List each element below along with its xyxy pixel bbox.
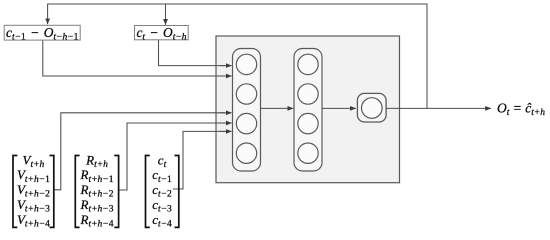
vector V: input vector [V_t+h ... V_t+h-4] xyxy=(13,152,54,229)
layer: hidden layer rounded rect xyxy=(294,49,322,172)
neuron: input 2 xyxy=(236,84,256,104)
vector R: input vector [R_t+h ... R_t+h-4] xyxy=(75,152,118,229)
box B1: c_t-1 minus O_t-h-1 xyxy=(4,25,80,43)
bracket right of R xyxy=(114,156,118,228)
wire: feedback loop from output line up and across the top xyxy=(48,4,427,108)
layer: input layer rounded rect xyxy=(233,49,261,172)
neuron: hidden 2 xyxy=(298,84,318,104)
neuron: input 3 xyxy=(236,113,256,133)
wire: vector c to network input 5 xyxy=(173,131,225,189)
neuron: hidden 4 xyxy=(298,143,318,163)
wire: box B1 output to network input 2 xyxy=(43,40,225,76)
neuron: hidden 3 xyxy=(298,113,318,133)
bracket left of V xyxy=(13,156,17,228)
svg-text:Vt+h: Vt+h xyxy=(23,152,45,170)
bracket left of c xyxy=(146,156,150,228)
svg-text:ct: ct xyxy=(158,152,167,170)
vector c: input vector [c_t ... c_t-4] xyxy=(146,152,179,229)
neuron: hidden 1 xyxy=(298,54,318,74)
bracket left of R xyxy=(75,156,79,228)
box: neural network container xyxy=(216,36,400,183)
svg-text:Ot = ĉt+h: Ot = ĉt+h xyxy=(497,101,545,119)
box B2: c_t minus O_t-h xyxy=(135,25,189,43)
neuron: input 4 xyxy=(236,143,256,163)
layer: output node rounded square xyxy=(357,93,386,122)
svg-text:Rt+h: Rt+h xyxy=(85,152,108,170)
neuron: input 1 xyxy=(236,54,256,74)
wire: hidden layer to output node xyxy=(322,107,356,109)
wire: input layer to hidden layer xyxy=(261,107,294,109)
wire: vector R to network input 4 xyxy=(119,123,225,190)
wire: network output line with arrow xyxy=(386,107,491,109)
neuron: output xyxy=(362,98,383,119)
wire: arrow down into box B1 xyxy=(47,4,49,25)
wire: vector V to network input 3 xyxy=(54,113,225,190)
bracket right of c xyxy=(175,156,179,228)
bracket right of V xyxy=(50,156,54,228)
wire: drop arrow down into box B2 xyxy=(165,4,167,25)
wire: box B2 output to network input 1 xyxy=(159,40,226,66)
